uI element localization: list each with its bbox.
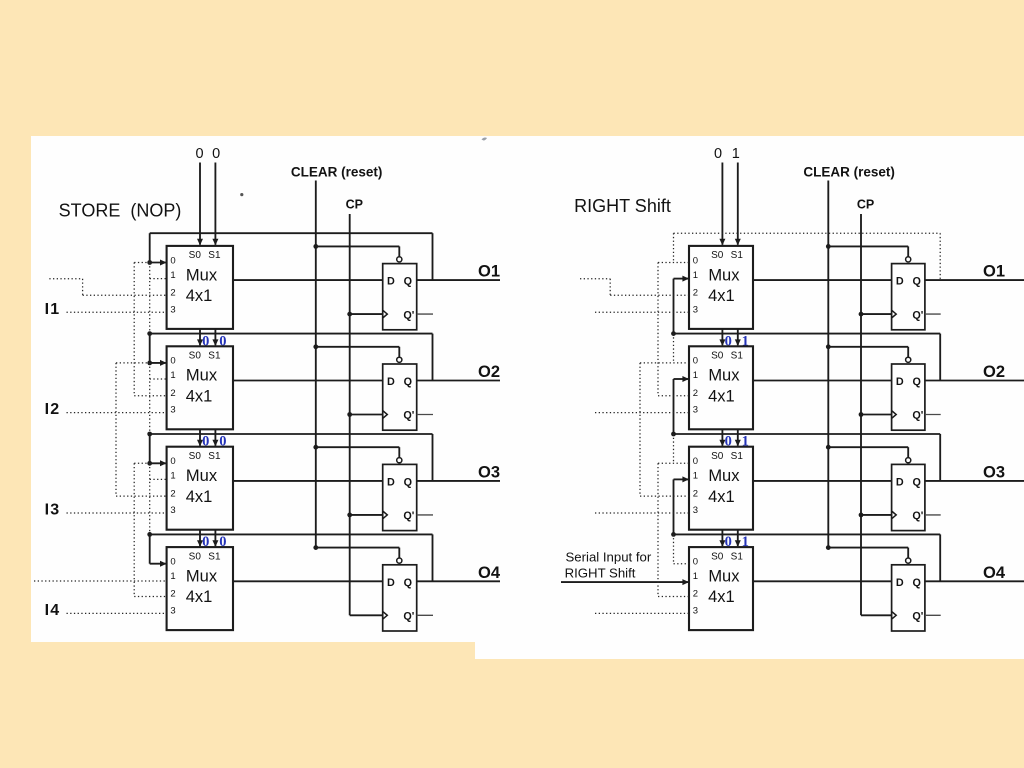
svg-text:Q: Q xyxy=(912,577,920,589)
svg-text:2: 2 xyxy=(170,388,175,399)
svg-text:Q: Q xyxy=(404,276,412,288)
mux U4 4x1 xyxy=(167,547,233,630)
svg-text:2: 2 xyxy=(170,288,175,299)
wire Q' stub FF6 xyxy=(925,414,941,416)
wire mux U6 input 3 xyxy=(595,412,689,414)
wire mux U8 input 2 xyxy=(658,463,689,596)
svg-text:0: 0 xyxy=(714,146,722,162)
wire mux U7 output to FF7 D xyxy=(753,480,892,482)
svg-text:RIGHT Shift: RIGHT Shift xyxy=(574,196,671,216)
svg-text:1: 1 xyxy=(693,571,698,582)
svg-text:S1: S1 xyxy=(731,351,744,362)
wire CP to FF4 clock xyxy=(350,614,383,616)
svg-text:4x1: 4x1 xyxy=(186,287,213,305)
wire CLEAR to FF3 clr bubble xyxy=(313,445,402,463)
wire CP vertical xyxy=(349,214,351,615)
wire CLEAR to FF7 clr bubble xyxy=(826,445,911,463)
svg-text:2: 2 xyxy=(170,589,175,600)
wire mux U2 input 3 xyxy=(67,412,167,414)
wire Q output O1 xyxy=(925,279,1024,281)
svg-text:Mux: Mux xyxy=(708,266,740,284)
wire mux U3 output to FF3 D xyxy=(233,480,383,482)
wire dotted vertical (O3 path) xyxy=(149,363,151,434)
svg-text:0: 0 xyxy=(170,456,175,467)
wire mux U5 input 0 xyxy=(658,262,689,264)
wire CP vertical xyxy=(860,214,862,615)
flip-flop FF5 xyxy=(892,264,925,330)
svg-text:0: 0 xyxy=(196,146,204,162)
svg-text:1: 1 xyxy=(693,370,698,381)
wire Q' stub FF2 xyxy=(417,414,433,416)
wire Q output O4 xyxy=(925,580,1024,582)
wire select lines between U3 and U4 xyxy=(197,530,218,547)
select value labels row 4 xyxy=(725,534,749,550)
svg-text:Q': Q' xyxy=(403,611,414,623)
mux U6 4x1 xyxy=(689,346,753,429)
wire mux U8 input 3 xyxy=(595,612,689,614)
svg-text:Mux: Mux xyxy=(186,568,218,586)
wire mux U1 input 2 xyxy=(49,279,166,296)
svg-text:2: 2 xyxy=(693,288,698,299)
svg-text:CP: CP xyxy=(346,198,363,212)
left scan panel xyxy=(31,136,1024,642)
svg-text:S1: S1 xyxy=(208,250,221,261)
wire Q' stub FF4 xyxy=(417,614,433,616)
svg-text:D: D xyxy=(896,376,904,388)
wire Q' stub FF1 xyxy=(417,313,433,315)
wire mux U4 output to FF4 D xyxy=(233,580,383,582)
wire mux U4 input 0 xyxy=(150,561,167,567)
svg-text:4x1: 4x1 xyxy=(708,287,735,305)
wire CP to FF3 clock xyxy=(347,513,382,518)
svg-text:D: D xyxy=(896,577,904,589)
svg-text:Mux: Mux xyxy=(186,467,218,485)
wire Q output O3 xyxy=(925,480,1024,482)
wire mux U7 input 0 xyxy=(658,462,689,464)
mux U5 4x1 xyxy=(689,246,753,329)
select value labels row 3 xyxy=(725,434,749,450)
wire mux U3 input 3 xyxy=(67,512,167,514)
svg-text:1: 1 xyxy=(170,370,175,381)
wire select lines between U1 and U2 xyxy=(197,329,218,346)
svg-text:Q': Q' xyxy=(403,510,414,522)
svg-text:S0: S0 xyxy=(189,250,202,261)
svg-text:2: 2 xyxy=(693,488,698,499)
svg-text:3: 3 xyxy=(693,606,698,617)
wire Q' stub FF8 xyxy=(925,614,941,616)
flip-flop FF1 xyxy=(383,264,417,330)
svg-text:S1: S1 xyxy=(731,451,744,462)
wire dotted vertical (O4 path) xyxy=(149,463,151,534)
flip-flop FF7 xyxy=(892,464,925,530)
wire CP to FF2 clock xyxy=(347,412,382,417)
wire Q' stub FF7 xyxy=(925,514,941,516)
wire select lines between U6 and U7 xyxy=(719,429,740,446)
svg-text:S0: S0 xyxy=(711,551,724,562)
flip-flop FF8 xyxy=(892,565,925,631)
wire CP to FF8 clock xyxy=(861,614,891,616)
mux U3 4x1 xyxy=(167,447,233,530)
svg-text:0: 0 xyxy=(693,456,698,467)
wire S0 select line xyxy=(199,163,201,245)
right scan panel xyxy=(475,136,1024,659)
svg-text:3: 3 xyxy=(170,606,175,617)
scan artifact squiggle xyxy=(482,138,488,141)
svg-text:D: D xyxy=(387,376,395,388)
flip-flop FF4 xyxy=(383,565,417,631)
svg-text:S0: S0 xyxy=(711,451,724,462)
svg-text:Q': Q' xyxy=(403,410,414,422)
wire CLEAR to FF1 clr bubble xyxy=(313,244,402,262)
svg-text:Mux: Mux xyxy=(708,568,740,586)
svg-text:S0: S0 xyxy=(189,351,202,362)
wire mux U5 input 1 xyxy=(674,276,690,334)
svg-text:O1: O1 xyxy=(478,263,500,281)
wire Q output O3 xyxy=(417,480,500,482)
wire mux U8 input 0 xyxy=(674,563,690,565)
svg-text:1: 1 xyxy=(170,571,175,582)
svg-text:4x1: 4x1 xyxy=(708,588,735,606)
wire CLEAR to FF5 clr bubble xyxy=(826,244,911,262)
wire mux U6 input 0 xyxy=(640,362,689,364)
wire Q output O1 xyxy=(417,279,500,281)
svg-text:3: 3 xyxy=(693,304,698,315)
svg-text:O3: O3 xyxy=(478,464,500,482)
svg-text:0: 0 xyxy=(212,146,220,162)
svg-text:Q': Q' xyxy=(403,309,414,321)
wire S0 select line xyxy=(721,163,723,245)
wire Q output O4 xyxy=(417,580,500,582)
wire mux U3 input 1 xyxy=(150,478,167,480)
wire mux U5 output to FF5 D xyxy=(753,279,892,281)
svg-text:1: 1 xyxy=(170,471,175,482)
wire Q' stub FF3 xyxy=(417,514,433,516)
svg-text:0: 0 xyxy=(693,557,698,568)
svg-text:4x1: 4x1 xyxy=(186,588,213,606)
wire Q' stub FF5 xyxy=(925,313,941,315)
wire feedback rail row 4 (Q4 to mux input 0) xyxy=(147,532,432,581)
wire dotted vertical (O2 path) xyxy=(149,263,151,334)
wire mux U2 output to FF2 D xyxy=(233,380,383,382)
svg-text:I1: I1 xyxy=(45,301,61,318)
wire feedback rail row 2 (Q2 to mux input 1) xyxy=(671,331,940,380)
wire mux U8 output to FF8 D xyxy=(753,580,892,582)
svg-text:I2: I2 xyxy=(45,401,61,418)
svg-text:Q: Q xyxy=(404,477,412,489)
flip-flop FF3 xyxy=(383,464,417,530)
wire serial input (active) to mux U8 input 1 xyxy=(561,581,688,583)
svg-text:2: 2 xyxy=(693,388,698,399)
svg-text:4x1: 4x1 xyxy=(186,488,213,506)
flip-flop FF2 xyxy=(383,364,417,430)
svg-text:4x1: 4x1 xyxy=(708,387,735,405)
svg-text:S1: S1 xyxy=(208,351,221,362)
mux U1 4x1 xyxy=(167,246,233,329)
svg-text:D: D xyxy=(896,477,904,489)
wire dotted tap at U3 input 0 node xyxy=(134,462,150,464)
wire CLEAR to FF2 clr bubble xyxy=(313,344,402,362)
svg-text:Q: Q xyxy=(404,577,412,589)
wire mux U6 output to FF6 D xyxy=(753,380,892,382)
mux U2 4x1 xyxy=(167,346,233,429)
wire feedback rail row 1 (Q1 to mux input 1) xyxy=(674,233,941,280)
svg-text:3: 3 xyxy=(170,505,175,516)
svg-text:Mux: Mux xyxy=(708,367,740,385)
svg-text:CLEAR (reset): CLEAR (reset) xyxy=(291,165,383,180)
scan artifact speck xyxy=(240,193,243,196)
svg-text:3: 3 xyxy=(170,304,175,315)
svg-text:D: D xyxy=(387,477,395,489)
svg-text:Mux: Mux xyxy=(186,367,218,385)
svg-text:Mux: Mux xyxy=(708,467,740,485)
wire mux U2 input 2 xyxy=(134,263,166,396)
wire CLEAR vertical xyxy=(315,181,317,548)
wire S1 select line xyxy=(737,163,739,245)
mux U8 4x1 xyxy=(689,547,753,630)
svg-text:Q': Q' xyxy=(912,611,923,623)
svg-text:O1: O1 xyxy=(983,263,1005,281)
svg-text:3: 3 xyxy=(170,405,175,416)
svg-text:I3: I3 xyxy=(45,502,61,519)
svg-text:Q: Q xyxy=(912,376,920,388)
wire mux U5 input 2 xyxy=(580,279,689,296)
svg-text:S1: S1 xyxy=(731,250,744,261)
svg-text:3: 3 xyxy=(693,405,698,416)
svg-text:1: 1 xyxy=(693,270,698,281)
wire select lines between U2 and U3 xyxy=(197,429,218,446)
wire Q output O2 xyxy=(417,380,500,382)
wire Q output O2 xyxy=(925,380,1024,382)
svg-text:Q': Q' xyxy=(912,410,923,422)
svg-text:Q: Q xyxy=(912,276,920,288)
wire CLEAR to FF8 clr bubble xyxy=(826,545,911,563)
select value labels row 2 xyxy=(725,333,749,349)
wire mux U4 input 3 xyxy=(67,612,167,614)
flip-flop FF6 xyxy=(892,364,925,430)
wire feedback rail row 3 (Q3 to mux input 0) xyxy=(147,432,432,481)
svg-text:0: 0 xyxy=(170,255,175,266)
svg-text:STORE (NOP): STORE (NOP) xyxy=(59,201,182,221)
select value labels row 3 xyxy=(202,434,226,450)
svg-text:Serial Input for: Serial Input for xyxy=(566,550,652,565)
wire mux U5 input 3 xyxy=(595,311,689,313)
wire feedback rail row 4 (Q4 to mux input 1) xyxy=(671,532,940,581)
wire CP to FF1 clock xyxy=(347,312,382,317)
wire CLEAR to FF4 clr bubble xyxy=(313,545,402,563)
svg-text:S0: S0 xyxy=(189,451,202,462)
svg-text:O2: O2 xyxy=(983,363,1005,381)
svg-text:D: D xyxy=(387,276,395,288)
svg-text:0: 0 xyxy=(693,356,698,367)
wire mux U1 input 1 xyxy=(150,278,167,280)
svg-text:RIGHT Shift: RIGHT Shift xyxy=(565,566,636,581)
svg-text:S1: S1 xyxy=(208,551,221,562)
svg-text:I4: I4 xyxy=(45,602,61,619)
wire mux U3 input 0 xyxy=(147,460,166,466)
wire S1 select line xyxy=(214,163,216,245)
svg-text:0: 0 xyxy=(693,255,698,266)
wire mux U7 input 1 xyxy=(674,476,690,534)
svg-text:2: 2 xyxy=(693,589,698,600)
wire mux U2 input 0 xyxy=(147,360,166,366)
svg-text:3: 3 xyxy=(693,505,698,516)
wire mux U2 input 1 xyxy=(150,378,167,380)
wire mux U1 input 0 xyxy=(147,260,166,266)
svg-text:O4: O4 xyxy=(478,564,501,582)
wire CP to FF7 clock xyxy=(859,513,892,518)
svg-text:S1: S1 xyxy=(731,551,744,562)
select value labels row 4 xyxy=(202,534,226,550)
mux U7 4x1 xyxy=(689,447,753,530)
svg-text:S1: S1 xyxy=(208,451,221,462)
svg-text:0: 0 xyxy=(170,557,175,568)
wire mux U6 input 1 xyxy=(674,376,690,434)
svg-text:Mux: Mux xyxy=(186,266,218,284)
svg-text:1: 1 xyxy=(693,471,698,482)
svg-text:S0: S0 xyxy=(711,250,724,261)
select value labels row 2 xyxy=(202,333,226,349)
wire dotted tap at U1 input 0 node xyxy=(134,262,150,264)
svg-text:S0: S0 xyxy=(711,351,724,362)
svg-text:CP: CP xyxy=(857,198,874,212)
svg-text:O4: O4 xyxy=(983,564,1006,582)
wire mux U4 input 2 xyxy=(134,463,166,596)
wire mux U6 input 2 xyxy=(658,263,689,396)
svg-text:D: D xyxy=(896,276,904,288)
svg-text:0: 0 xyxy=(170,356,175,367)
wire mux U7 input 3 xyxy=(595,512,689,514)
wire CP to FF6 clock xyxy=(859,412,892,417)
svg-text:CLEAR (reset): CLEAR (reset) xyxy=(803,165,895,180)
wire select lines between U7 and U8 xyxy=(719,530,740,547)
svg-text:2: 2 xyxy=(170,488,175,499)
svg-text:Q: Q xyxy=(404,376,412,388)
svg-text:1: 1 xyxy=(170,270,175,281)
wire CLEAR to FF6 clr bubble xyxy=(826,344,911,362)
svg-text:S0: S0 xyxy=(189,551,202,562)
svg-text:Q: Q xyxy=(912,477,920,489)
svg-text:Q': Q' xyxy=(912,309,923,321)
svg-text:O2: O2 xyxy=(478,363,500,381)
svg-text:4x1: 4x1 xyxy=(186,387,213,405)
svg-text:4x1: 4x1 xyxy=(708,488,735,506)
wire CLEAR vertical xyxy=(827,181,829,548)
wire mux U3 input 2 xyxy=(116,363,167,496)
svg-text:D: D xyxy=(387,577,395,589)
svg-text:1: 1 xyxy=(732,146,740,162)
svg-text:O3: O3 xyxy=(983,464,1005,482)
wire feedback rail row 2 (Q2 to mux input 0) xyxy=(147,331,432,380)
svg-text:Q': Q' xyxy=(912,510,923,522)
wire feedback rail row 1 (Q1 to mux input 0) xyxy=(150,233,433,280)
wire mux U1 output to FF1 D xyxy=(233,279,383,281)
wire mux U7 input 2 xyxy=(640,363,689,496)
wire dotted tap at U2 input 0 node xyxy=(116,362,150,364)
wire serial input (inactive, dotted) to mux U4 input 1 xyxy=(34,580,167,582)
wire feedback rail row 3 (Q3 to mux input 1) xyxy=(671,432,940,481)
wire CP to FF5 clock xyxy=(859,312,892,317)
wire mux U1 input 3 xyxy=(67,311,167,313)
wire select lines between U5 and U6 xyxy=(719,329,740,346)
